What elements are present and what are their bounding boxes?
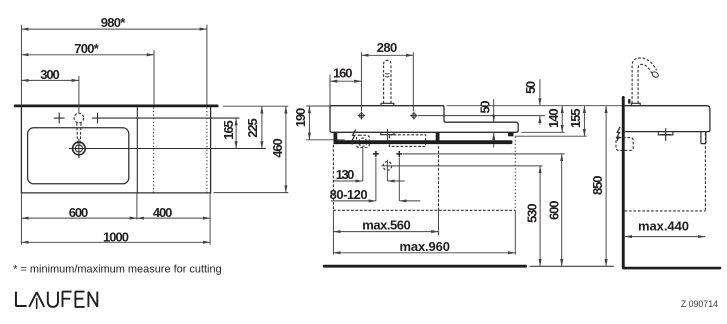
faucet thread squiggle xyxy=(385,73,389,77)
svg-text:* = minimum/maximum measure fo: * = minimum/maximum measure for cutting xyxy=(13,263,222,275)
svg-text:130: 130 xyxy=(336,167,355,182)
wall tick xyxy=(628,99,630,103)
right top extension line xyxy=(223,105,288,107)
dim 530 line xyxy=(539,166,541,266)
dim 225 line xyxy=(261,106,263,148)
dim 1000 line xyxy=(21,241,210,243)
svg-text:Z 090714: Z 090714 xyxy=(681,299,718,309)
svg-text:80-120: 80-120 xyxy=(330,187,368,202)
svg-text:225: 225 xyxy=(245,118,260,138)
siphon dashed box xyxy=(357,135,370,147)
gooseneck spout inner (dashed) xyxy=(638,64,652,103)
svg-text:max.440: max.440 xyxy=(638,219,689,234)
LAUFEN logo: N xyxy=(88,292,97,307)
mounting frame bar (bold) xyxy=(334,140,513,144)
svg-text:140: 140 xyxy=(546,108,561,128)
svg-text:max.560: max.560 xyxy=(362,217,411,232)
connection line to 600 dim xyxy=(403,153,565,155)
right foot xyxy=(508,132,514,136)
svg-text:50: 50 xyxy=(477,101,492,114)
LAUFEN logo: L xyxy=(16,292,97,309)
faucet pipe dashed xyxy=(384,60,391,103)
svg-text:460: 460 xyxy=(270,138,285,158)
dim 190 line xyxy=(308,106,310,140)
drain outer circle xyxy=(73,142,86,155)
dim max.440 line xyxy=(625,236,706,238)
faucet hole (dashed circle) xyxy=(74,113,84,123)
svg-text:max.960: max.960 xyxy=(399,239,450,254)
drain bracket under body xyxy=(381,132,394,134)
svg-text:600: 600 xyxy=(547,201,562,221)
dim 160 extension up xyxy=(329,75,331,106)
LAUFEN logo: F xyxy=(63,292,72,307)
bracket dashed extension down xyxy=(704,133,706,211)
svg-text:155: 155 xyxy=(568,108,583,128)
left mounting tab xyxy=(334,132,338,144)
dim 165 line xyxy=(235,118,237,148)
gooseneck spout outer (dashed) xyxy=(632,58,657,103)
dim 460 line xyxy=(285,106,287,192)
floor line bold middle xyxy=(323,265,527,268)
right solid extension xyxy=(514,210,516,254)
spout tip xyxy=(651,71,659,79)
svg-text:190: 190 xyxy=(293,108,308,128)
dim 300: line xyxy=(21,79,79,81)
dim 850 line xyxy=(605,106,607,267)
dim 600 line xyxy=(561,154,563,266)
dim 50 upper arrows xyxy=(539,79,541,105)
svg-text:300: 300 xyxy=(40,67,60,82)
LAUFEN logo: U xyxy=(48,292,58,307)
water connection cross left xyxy=(373,151,379,157)
svg-text:850: 850 xyxy=(590,176,605,196)
floor line thin xyxy=(530,265,614,267)
dashed zone line xyxy=(333,209,515,211)
dim 190 extensions xyxy=(306,106,344,140)
dim 140 line xyxy=(561,106,563,133)
dim 400 line xyxy=(137,217,210,219)
LAUFEN logo: A needle xyxy=(36,298,38,309)
fixing cross left xyxy=(358,112,365,120)
svg-text:1000: 1000 xyxy=(103,230,129,245)
svg-text:600: 600 xyxy=(69,205,89,220)
drain cross vertical xyxy=(78,139,80,158)
cross marker right + extension line to 165 dim xyxy=(92,113,239,124)
feet bottom extension xyxy=(515,135,587,137)
middle tab dashed extension xyxy=(438,146,440,210)
dim 980*: extension lines xyxy=(21,25,207,105)
svg-text:160: 160 xyxy=(333,66,353,81)
dim 280 extension lines xyxy=(361,52,413,111)
dim 155 line xyxy=(583,106,585,137)
LAUFEN logo: A triangle xyxy=(29,292,44,307)
side dashed box xyxy=(616,138,633,151)
left solid extension down xyxy=(332,210,334,254)
svg-text:165: 165 xyxy=(221,120,236,140)
faucet flange xyxy=(381,103,395,105)
top surface extension line to wall xyxy=(447,105,622,107)
dim 600 line xyxy=(21,217,136,219)
left dashed extension down xyxy=(332,145,334,211)
dim max.960 line xyxy=(333,252,515,254)
dim 700*: extension xyxy=(153,50,155,104)
bottom extension lines xyxy=(21,193,210,245)
hole reference line xyxy=(418,115,545,117)
waste outlet circle (dashed) xyxy=(383,162,392,171)
hole-to-drain dashed pair xyxy=(77,123,81,145)
middle mounting tab xyxy=(436,132,440,144)
faucet base xyxy=(632,103,641,105)
right dotted extension xyxy=(514,137,516,211)
floor (bold) xyxy=(622,267,721,270)
fixing cross right xyxy=(410,112,417,120)
connection dashed box xyxy=(389,135,425,147)
dim 130 arrows xyxy=(333,180,362,182)
middle solid extension xyxy=(438,210,440,235)
body bottom extension xyxy=(522,131,565,133)
waste outlet cross + line to 530 dim xyxy=(381,160,542,181)
siphon centre line down xyxy=(362,148,364,181)
dim 160 line xyxy=(330,80,361,82)
washbasin body outline xyxy=(330,106,518,133)
svg-text:280: 280 xyxy=(377,40,398,55)
cut line 700 (dotted) xyxy=(153,108,155,193)
dim max.560 line xyxy=(333,231,438,233)
dim 50 left arrows xyxy=(493,99,495,122)
drain centre line to 225 dim xyxy=(69,148,266,150)
divider line 600/400 xyxy=(136,107,138,193)
dim 700*: line xyxy=(21,54,154,56)
dim 280 line xyxy=(361,54,413,56)
lightning bolt middle xyxy=(352,130,356,145)
countertop front edge (bold bar) xyxy=(14,105,219,108)
connection extension lines down xyxy=(376,158,399,201)
drain inner circle xyxy=(75,145,82,152)
vanity body outline xyxy=(21,107,210,193)
lightning bolt side xyxy=(617,127,620,141)
side fixing cross xyxy=(660,128,671,141)
svg-text:530: 530 xyxy=(525,203,540,223)
side wall bracket xyxy=(701,132,706,144)
cut line 980 (dotted) xyxy=(206,108,208,193)
basin inner bowl xyxy=(28,128,129,184)
svg-text:700*: 700* xyxy=(74,41,99,56)
water connection cross right xyxy=(396,151,402,157)
dim 300: extension xyxy=(78,76,80,113)
LAUFEN logo: E xyxy=(75,292,84,307)
siphon dashed circle xyxy=(359,138,367,146)
wall (bold) xyxy=(622,96,625,268)
drain axis tick xyxy=(386,129,388,144)
dashed depth line xyxy=(625,210,706,212)
svg-text:980*: 980* xyxy=(101,15,126,30)
body side profile xyxy=(625,106,710,132)
svg-text:50: 50 xyxy=(523,81,538,94)
right bottom extension line xyxy=(214,192,289,194)
dim 980*: line xyxy=(21,28,207,30)
svg-text:400: 400 xyxy=(153,205,173,220)
dim 80-120 arrows xyxy=(331,200,376,202)
side drain tab xyxy=(658,132,673,135)
cross marker left xyxy=(54,113,65,124)
